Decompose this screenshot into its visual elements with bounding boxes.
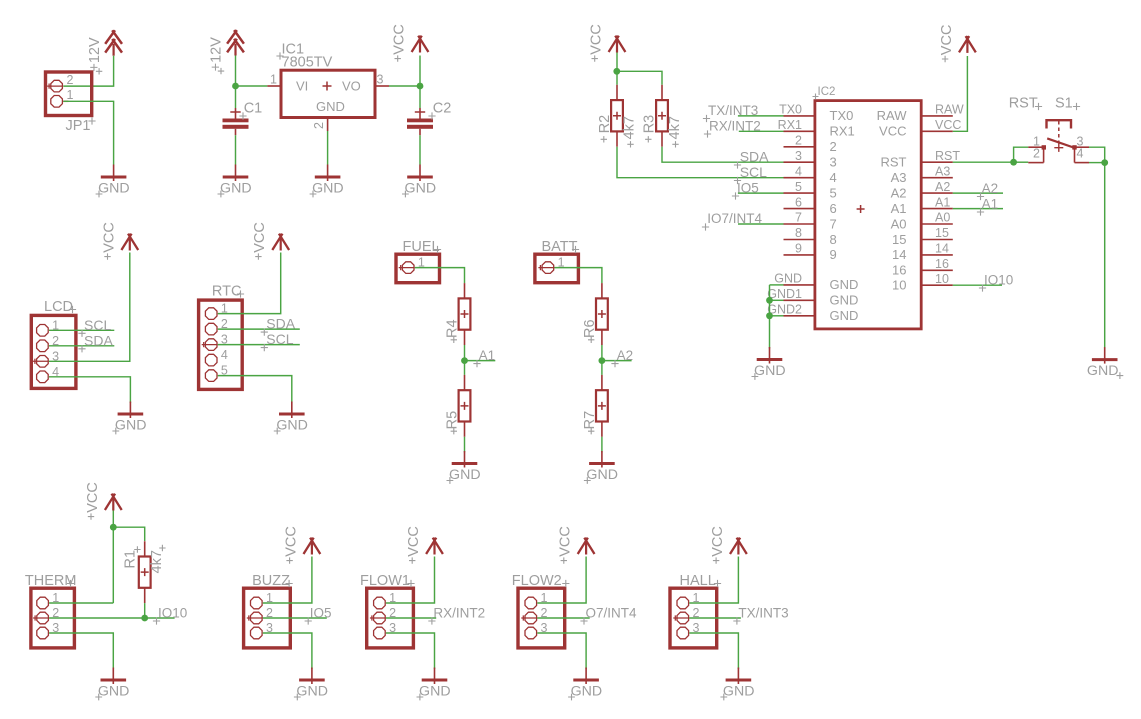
svg-text:A3: A3 [891,170,907,185]
svg-text:A0: A0 [891,216,907,231]
connector RTC [199,284,245,390]
svg-text:RX/INT2: RX/INT2 [709,118,761,133]
net label SCL [734,164,767,184]
power VCC (BUZZ) [283,526,320,564]
wire SDA (LCD pin 2) [49,345,114,347]
wire LCD pin 4 to GND [49,377,130,403]
resistor R4 [445,283,471,345]
ground (HALL) [720,668,754,701]
pin A0 [891,211,953,232]
svg-text:A1: A1 [982,197,999,212]
wire R4 to A1 node [464,345,466,361]
svg-text:8: 8 [830,232,837,247]
wire +12V input net [236,56,268,109]
pin 1 [205,308,217,320]
svg-text:A2: A2 [617,348,634,363]
power VCC (IC2) [939,25,976,63]
svg-text:15: 15 [892,232,906,247]
wire +12V to JP1 pin 2 [63,56,113,86]
net label TX/INT3 [703,103,758,122]
svg-text:RST: RST [881,155,907,170]
wire IO10 net (THERM pin 2) [49,617,175,619]
resistor R7 [582,375,608,437]
node junction at IC1 output [417,83,424,90]
pin 4 [205,354,217,366]
svg-text:A1: A1 [935,195,950,209]
wire HALL pin 1 to VCC [689,557,738,604]
pin 3 [1075,146,1090,148]
power VCC (pullups) [589,24,626,62]
pin A2 [891,180,953,201]
pin RST [881,149,961,170]
svg-text:GND: GND [98,181,130,197]
net label SDA [734,149,769,169]
pin 2 [374,612,386,624]
net label SCL [261,331,294,351]
connector FLOW1 [360,573,415,648]
svg-text:RAW: RAW [935,103,964,117]
pin 10 [892,272,953,293]
svg-text:1: 1 [67,88,74,102]
svg-text:4k7: 4k7 [667,116,683,139]
svg-text:6: 6 [830,201,837,216]
svg-text:VO: VO [342,79,361,94]
svg-text:SCL: SCL [266,331,293,347]
svg-text:O7/INT4: O7/INT4 [586,606,638,621]
connector JP1 [46,72,96,134]
pin 1 [267,85,281,87]
svg-text:RST: RST [1009,96,1038,112]
wire IO5 net (BUZZ pin 2) [263,617,327,619]
wire R7 to GND [601,437,603,453]
wire FLOW1 pin 1 to VCC [386,557,435,604]
ground (C1) [218,165,252,198]
wire A2 to R7 [601,361,603,375]
svg-text:RAW: RAW [877,108,908,123]
svg-text:BATT: BATT [542,239,578,255]
pin 2 [327,118,329,132]
wire O7/INT4 net (FLOW2 pin 2) [537,617,589,619]
power +12V (IC1 input) [209,30,244,74]
ground (FLOW1) [417,668,451,701]
wire FUEL pin 1 to R4 [415,268,465,284]
svg-text:RX1: RX1 [830,124,855,139]
pin 2 [37,340,49,352]
net label SCL [78,317,111,337]
svg-text:TX/INT3: TX/INT3 [738,606,788,621]
connector BATT [535,239,579,283]
svg-text:5: 5 [795,180,802,194]
wire TX/INT3 net (HALL pin 2) [689,617,741,619]
pin 3 [37,356,49,368]
pin GND2 [767,303,858,324]
svg-text:IO7/INT4: IO7/INT4 [707,211,762,226]
pin 3 [525,627,537,639]
svg-text:GND: GND [449,467,481,483]
svg-text:A1: A1 [479,348,496,363]
net label RX/INT2 [428,606,485,625]
svg-text:9: 9 [830,247,837,262]
pin 5 [784,180,837,201]
svg-text:4: 4 [1077,147,1084,161]
net label A1 [473,348,495,367]
svg-text:A2: A2 [982,181,999,196]
wire R1 to IO10 node [144,603,146,618]
svg-text:4: 4 [221,348,228,362]
net label IO7/INT4 [702,211,763,230]
svg-text:TX0: TX0 [779,103,802,117]
svg-text:FLOW1: FLOW1 [360,573,410,589]
wire R6 to A2 node [601,345,603,361]
ground (FUEL) [447,451,481,484]
svg-text:VCC: VCC [710,526,726,557]
svg-text:R1: R1 [123,550,139,569]
pin A1 [891,195,953,216]
wire TX/INT3 net [738,115,784,117]
pin 1 [402,262,414,274]
net label RX/INT2 [704,118,761,137]
wire SDA net (R3 to IC2 pin 3) [662,147,815,163]
power VCC (IC1 output) [392,24,429,62]
node junction S1 GND [1101,159,1108,166]
wire THERM pin 1 to VCC [49,602,113,604]
node A1 [461,357,468,364]
svg-text:VCC: VCC [85,482,101,513]
net label A2 [977,181,998,200]
connector LCD [31,299,76,388]
connector FUEL [396,239,441,283]
svg-text:VI: VI [296,79,308,94]
svg-text:GND: GND [98,684,130,700]
capacitor C2 [407,101,451,136]
svg-text:15: 15 [935,226,949,240]
svg-text:FUEL: FUEL [403,239,440,255]
pin 2 [205,323,217,335]
wire RTC pin 1 to VCC [218,253,281,314]
svg-text:A2: A2 [935,180,950,194]
connector FLOW2 [512,573,570,648]
pin GND1 [767,287,858,308]
wire C1 to GND [235,135,237,164]
pin 2 [525,612,537,624]
power VCC (FLOW1) [406,526,443,564]
svg-text:GND: GND [296,684,328,700]
svg-text:14: 14 [935,242,949,256]
svg-text:VCC: VCC [589,24,605,55]
pin 3 [375,85,389,87]
wire VCC to IC2 [953,56,968,131]
svg-text:GND: GND [115,418,147,434]
wire FLOW2 pin 1 to VCC [537,557,586,604]
svg-text:S1: S1 [1055,96,1073,112]
svg-text:3: 3 [795,149,802,163]
resistor R1 [123,541,166,603]
svg-text:R4: R4 [445,319,461,338]
svg-text:2: 2 [795,134,802,148]
svg-text:GND: GND [830,277,859,292]
power +12V (JP1) [87,30,122,74]
svg-text:GND: GND [220,181,252,197]
svg-text:RX/INT2: RX/INT2 [433,606,485,621]
svg-text:VCC: VCC [406,526,422,557]
svg-text:4: 4 [830,170,837,185]
svg-text:GND: GND [419,684,451,700]
pin 8 [784,226,837,247]
svg-text:R6: R6 [582,319,598,338]
svg-text:GND: GND [276,418,308,434]
svg-text:GND: GND [405,181,437,197]
pin 1 [37,325,49,337]
svg-text:GND: GND [830,308,859,323]
pin VCC [879,118,961,139]
svg-text:C2: C2 [433,101,452,117]
svg-text:R2: R2 [597,115,613,134]
svg-text:VCC: VCC [101,222,117,253]
svg-text:GND: GND [723,684,755,700]
wire SCL (RTC pin 3) [218,344,300,346]
wire SCL net (R2 to IC2 pin 4) [617,147,815,178]
node junction GND1 [766,297,773,304]
svg-text:2: 2 [830,139,837,154]
pin 1 [525,597,537,609]
pin 1 [374,597,386,609]
wire FLOW2 pin 3 to GND [537,633,586,669]
pin RAW [877,103,964,124]
wire FLOW1 pin 3 to GND [386,633,435,669]
pin 16 [892,257,953,278]
wire RST to S1 [1014,147,1029,162]
svg-text:JP1: JP1 [66,118,91,134]
wire RST net [953,161,1014,163]
pin GND [774,272,858,293]
net label SDA [78,332,113,352]
svg-text:RTC: RTC [212,284,242,300]
svg-text:SDA: SDA [266,316,295,332]
svg-text:R7: R7 [582,411,598,430]
pin 4 [784,164,837,185]
net label A1 [977,197,998,216]
connector HALL [670,573,721,648]
wire HALL pin 3 to GND [689,633,738,669]
net label IO5 [305,606,332,625]
svg-text:16: 16 [892,263,906,278]
svg-text:VCC: VCC [939,25,955,56]
svg-text:GND: GND [586,467,618,483]
svg-text:LCD: LCD [44,299,73,315]
wire BUZZ pin 3 to GND [263,633,312,669]
svg-text:VCC: VCC [252,222,268,253]
pin 2 [784,134,837,155]
svg-text:3: 3 [377,73,384,87]
svg-text:4k7: 4k7 [622,116,638,139]
net label IO10 [153,606,187,625]
wire IC2 ground bus [770,285,784,349]
pin 1 [677,597,689,609]
switch S1 [1009,96,1089,163]
node junction GND2 [766,312,773,319]
wire RX/INT2 net (FLOW1 pin 2) [386,617,436,619]
svg-text:SDA: SDA [740,149,769,165]
ground (FLOW2) [568,668,602,701]
pin 1 [542,262,554,274]
svg-text:7: 7 [795,211,802,225]
svg-text:10: 10 [892,278,906,293]
pin 3 [205,339,217,351]
pin 3 [374,627,386,639]
power VCC (LCD) [101,222,138,260]
power VCC (FLOW2) [558,526,595,564]
ground (S1) [1087,347,1123,379]
svg-text:SDA: SDA [84,332,113,348]
pin TX0 [779,103,853,124]
pin 2 [677,612,689,624]
pin 15 [892,226,953,247]
svg-text:R3: R3 [642,115,658,134]
svg-text:+12V: +12V [87,37,103,72]
power VCC (THERM) [85,482,122,520]
svg-text:VCC: VCC [283,526,299,557]
svg-text:VCC: VCC [392,24,408,55]
svg-text:2: 2 [312,122,326,129]
ground (THERM) [95,668,129,701]
pin 1 [251,597,263,609]
power VCC (RTC) [252,222,289,260]
net label TX/INT3 [733,606,788,625]
svg-text:IC2: IC2 [818,86,836,98]
pin 6 [784,195,837,216]
svg-text:THERM: THERM [25,573,77,589]
svg-text:7: 7 [830,216,837,231]
wire THERM pin 3 to GND [49,633,113,669]
svg-text:3: 3 [830,155,837,170]
pin 1 [1028,146,1043,148]
wire BUZZ pin 1 to VCC [263,557,312,604]
svg-text:A3: A3 [935,164,950,178]
pin 5 [205,370,217,382]
svg-text:TX/INT3: TX/INT3 [708,103,758,118]
svg-text:4k7: 4k7 [149,550,165,573]
net label IO5 [732,180,759,199]
ground (BUZZ) [294,668,328,701]
pin 1 [37,597,49,609]
svg-text:VCC: VCC [935,118,961,132]
svg-text:8: 8 [795,226,802,240]
wire A1 net [465,360,496,362]
wire IO5 net [738,192,784,194]
ground (BATT) [584,451,618,484]
svg-text:VCC: VCC [879,124,906,139]
power VCC (HALL) [710,526,747,564]
pin 14 [892,242,953,263]
svg-text:IO5: IO5 [310,606,332,621]
node junction IO10 [141,615,148,622]
wire A1 net [953,208,1003,210]
svg-text:GND: GND [571,684,603,700]
svg-text:R5: R5 [445,411,461,430]
ground (C2) [402,165,436,198]
svg-text:1: 1 [270,73,277,87]
node junction THERM VCC [110,524,117,531]
connector BUZZ [244,573,293,648]
pin 9 [784,242,837,263]
wire A2 net [953,192,1003,194]
ground (RTC) [274,402,308,435]
svg-text:SCL: SCL [84,317,111,333]
capacitor C1 [223,101,263,136]
svg-text:FLOW2: FLOW2 [512,573,562,589]
svg-text:2: 2 [1033,147,1040,161]
net label IO10 [979,273,1013,292]
ground (IC2) [752,347,786,380]
wire IO10 net [953,284,1002,286]
svg-text:RX1: RX1 [778,118,802,132]
svg-text:10: 10 [935,272,949,286]
wire IC1 pin 2 to GND [327,131,329,165]
pin 3 [251,627,263,639]
pin 4 [37,371,49,383]
wire VCC to R2/R3 [617,53,662,85]
wire SDA (RTC pin 2) [218,328,300,330]
svg-text:SCL: SCL [740,164,767,180]
net label SDA [261,316,296,336]
svg-text:7805TV: 7805TV [282,55,333,71]
svg-text:A0: A0 [935,211,950,225]
svg-text:IO10: IO10 [984,273,1013,288]
pin 2 [251,612,263,624]
svg-text:VCC: VCC [558,526,574,557]
wire LCD pin 3 to VCC [49,253,130,362]
pin RX1 [778,118,855,139]
wire R5 to GND [464,437,466,453]
wire S1 to GND [1089,147,1105,348]
resistor R2 [597,85,638,148]
pin 2 [37,612,49,624]
svg-text:5: 5 [830,185,837,200]
svg-text:2: 2 [67,73,74,87]
svg-text:IO10: IO10 [158,606,187,621]
net label A2 [611,348,633,367]
svg-text:A2: A2 [891,185,907,200]
wire C2 to GND [419,135,421,164]
svg-text:+12V: +12V [209,37,225,72]
wire JP1 pin 1 to GND [63,101,113,164]
svg-text:4: 4 [795,164,802,178]
pin 3 [784,149,837,170]
pin 3 [37,627,49,639]
svg-text:BUZZ: BUZZ [252,573,290,589]
svg-text:14: 14 [892,247,906,262]
ground (IC1) [310,165,344,198]
wire RX/INT2 net [739,130,784,132]
net label O7/INT4 [580,606,637,625]
svg-text:A1: A1 [891,201,907,216]
svg-text:TX0: TX0 [830,108,854,123]
pin 7 [784,211,837,232]
svg-text:IO5: IO5 [737,180,759,195]
pin 4 [1075,162,1090,164]
wire A2 net [602,360,632,362]
wire SCL (LCD pin 1) [49,329,114,331]
node junction RST [1010,159,1017,166]
pin A3 [891,164,953,185]
svg-text:GND: GND [316,99,345,114]
svg-text:GND: GND [774,272,802,286]
connector THERM [25,573,77,648]
node junction pullup VCC [613,68,620,75]
IC U2 (IC2 pro-mini module) [767,86,964,329]
node A2 [599,357,606,364]
svg-text:9: 9 [795,242,802,256]
